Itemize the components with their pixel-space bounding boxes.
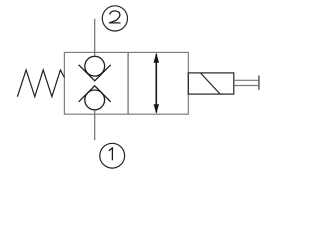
port 2 label circle [102, 6, 127, 31]
solenoid lead upper [234, 79, 259, 81]
solenoid diagonal [200, 73, 220, 94]
valve body outline [64, 52, 188, 114]
seat V1 (upper) [79, 65, 111, 81]
check valve ball CV1 (upper) [85, 56, 105, 76]
solenoid lead lower [234, 85, 259, 87]
port 1 label digit [109, 148, 113, 161]
port 1 label circle [100, 143, 125, 168]
seat V2 (lower, inverted) [79, 86, 111, 102]
check valve ball CV2 (lower) [85, 90, 105, 110]
port 2 label digit [109, 11, 120, 23]
port 2 line [94, 19, 96, 57]
position divider [127, 52, 129, 114]
port 1 line [94, 110, 96, 140]
solenoid box [188, 73, 234, 94]
flow arrow (double headed) [154, 53, 159, 114]
terminal bar [258, 76, 260, 90]
spring [17, 70, 64, 97]
